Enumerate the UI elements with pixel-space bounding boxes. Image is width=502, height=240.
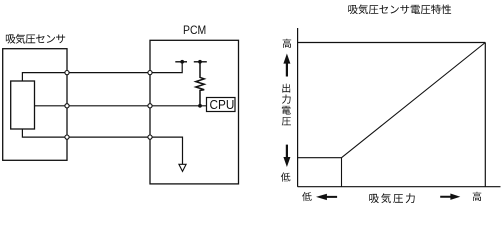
svg-text:CPU: CPU bbox=[210, 98, 235, 112]
terminal (sensor box edge, ground wire) bbox=[65, 135, 69, 139]
terminal (PCM box edge, signal wire) bbox=[148, 104, 152, 108]
characteristic curve: flat then linear rise bbox=[298, 43, 486, 158]
label: 吸気圧センサ (intake pressure sensor) bbox=[6, 34, 65, 44]
pull-up resistor R2 (zigzag) with leads bbox=[196, 62, 204, 106]
graph x-axis bbox=[298, 186, 501, 188]
junction dot: resistor to signal wire bbox=[198, 104, 202, 108]
terminal (sensor box edge, VREF wire) bbox=[65, 71, 69, 75]
right arrow (x-axis) bbox=[440, 194, 460, 200]
junction dot on pull-up bar bbox=[198, 60, 202, 64]
svg-text:PCM: PCM bbox=[183, 24, 206, 37]
label: 吸気圧力 (intake pressure) bbox=[369, 193, 414, 203]
power rail bar (pull-up supply, right tap) bbox=[194, 61, 207, 63]
ground symbol (open triangle) bbox=[179, 164, 186, 171]
label: 高 (high, y-axis top) bbox=[283, 39, 292, 48]
graph y-axis bbox=[297, 28, 299, 187]
graph title: 吸気圧センサ電圧特性 bbox=[348, 4, 451, 14]
graph right border bbox=[484, 43, 486, 187]
breakpoint drop line bbox=[341, 158, 343, 187]
sensor element R1 (pressure-sensing resistor body) bbox=[11, 81, 35, 129]
terminal (PCM box edge, ground wire) bbox=[148, 135, 152, 139]
sensor box (吸気圧センサ enclosure) bbox=[3, 49, 67, 161]
wire: ground line, sensor element bottom to PCM ground bbox=[22, 129, 182, 164]
PCM box bbox=[150, 40, 239, 184]
left arrow (x-axis) bbox=[316, 194, 337, 200]
terminal (sensor box edge, signal wire) bbox=[65, 104, 69, 108]
label: 低 (low, y-axis bottom) bbox=[281, 172, 291, 181]
power rail bar (VREF supply, left tap) bbox=[175, 61, 187, 63]
wire: signal line, sensor element wiper to CPU bbox=[35, 105, 207, 107]
terminal (PCM box edge, VREF wire) bbox=[148, 71, 152, 75]
CPU box bbox=[207, 98, 236, 112]
graph top border bbox=[298, 42, 486, 44]
down arrow (y-axis) bbox=[283, 145, 290, 167]
wire: VREF line, sensor element top to PCM pull-up rail bbox=[22, 62, 182, 81]
junction dot on VREF bar bbox=[180, 60, 184, 64]
label: 出力電圧 (output voltage, vertical) bbox=[282, 84, 291, 126]
label: 高 (high, x-axis right) bbox=[473, 192, 482, 201]
up arrow (y-axis) bbox=[283, 54, 290, 77]
label: 低 (low, x-axis left) bbox=[302, 192, 312, 201]
